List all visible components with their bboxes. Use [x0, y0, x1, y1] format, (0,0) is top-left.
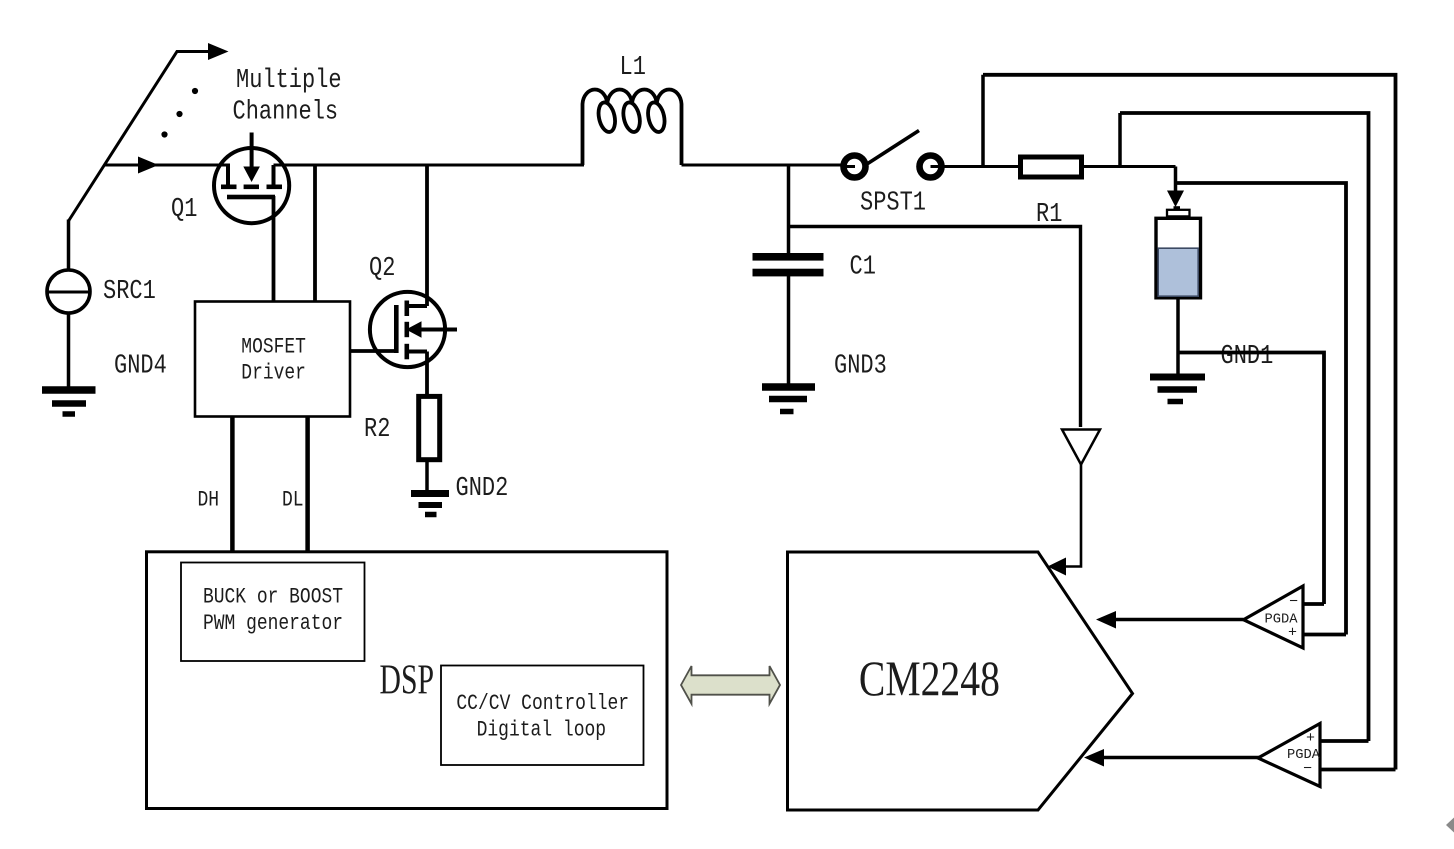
svg-text:DSP: DSP [380, 658, 435, 704]
wire sense tap before R1 [981, 75, 985, 167]
svg-text:GND4: GND4 [114, 352, 167, 382]
svg-text:CC/CV Controller: CC/CV Controller [456, 690, 629, 716]
svg-text:L1: L1 [620, 53, 646, 83]
wire rail L1 to SPST1 [682, 164, 845, 167]
label Q1 [171, 195, 197, 225]
svg-text:SRC1: SRC1 [103, 277, 156, 307]
svg-text:GND3: GND3 [834, 352, 887, 382]
svg-text:Driver: Driver [241, 359, 306, 385]
wire PGDA1 minus input stub [1303, 602, 1325, 606]
label C1 [850, 253, 876, 283]
source SRC1 [47, 270, 90, 313]
wire battery to ground [1176, 298, 1180, 378]
wire C1 top lead [787, 165, 791, 254]
node dots (ellipsis) [161, 88, 198, 138]
transistor Q2 [370, 292, 457, 367]
wire battery drop with arrow [1167, 167, 1184, 208]
svg-text:BUCK or BOOST: BUCK or BOOST [203, 584, 343, 610]
buffer amp A1 [1062, 430, 1100, 465]
inductor L1 [583, 89, 682, 165]
capacitor C1 [753, 253, 824, 276]
svg-text:−: − [1303, 761, 1312, 778]
ground GND4 [42, 390, 96, 414]
IC CM2248 [788, 552, 1133, 810]
DSP block U2 [147, 552, 668, 809]
wire battery plus feedback to PGDA1 plus [1176, 183, 1347, 635]
wire SRC1 bottom lead [67, 313, 71, 387]
wire main rail Q1 to L1 [274, 164, 585, 167]
label SPST1 [860, 189, 926, 219]
wire PGDA2 output arrow into CM2248 [1084, 749, 1260, 767]
wire PGDA2 minus input stub [1320, 768, 1396, 772]
op-amp PGDA1 [1244, 586, 1304, 648]
svg-text:+: + [1288, 625, 1297, 642]
label DH [198, 487, 220, 513]
label Q2 [369, 254, 395, 284]
wire PGDA1 plus input stub [1303, 633, 1347, 637]
wire C1 bottom lead [787, 276, 791, 384]
wire driver to Q2 gate [350, 349, 395, 353]
MOSFET driver U1 [195, 302, 350, 417]
svg-text:+: + [1306, 730, 1315, 747]
resistor R2 [419, 396, 440, 459]
svg-text:C1: C1 [850, 253, 876, 283]
svg-text:Channels: Channels [233, 98, 339, 128]
wire C1 voltage feedback [789, 227, 1081, 428]
wire arrowhead to other channels [208, 43, 229, 60]
wire sense tap after R1 [1118, 113, 1122, 167]
svg-text:GND2: GND2 [456, 474, 509, 504]
wire PGDA2 plus input stub [1320, 739, 1369, 743]
op-amp PGDA2 [1258, 724, 1321, 787]
svg-text:GND1: GND1 [1221, 342, 1274, 372]
wire SRC1 top lead [67, 220, 71, 271]
svg-text:−: − [1289, 594, 1298, 611]
wire second feedback to PGDA2 plus [1120, 113, 1369, 741]
svg-text:MOSFET: MOSFET [241, 334, 306, 360]
PWM generator sub-block [181, 563, 365, 662]
label R1 [1036, 200, 1062, 230]
label Multiple Channels [233, 66, 342, 128]
decoration corner glyph [1446, 818, 1454, 833]
wire input rail with arrow [105, 157, 231, 174]
ground GND2 [411, 494, 449, 515]
svg-text:DL: DL [282, 487, 304, 513]
label GND2 [456, 474, 509, 504]
wire multiple-channel diagonal bus [69, 52, 212, 222]
transistor Q1 [214, 133, 289, 302]
label L1 [620, 53, 646, 83]
wire PGDA1 output arrow into CM2248 [1096, 611, 1244, 629]
wire top feedback to PGDA2 minus [983, 75, 1396, 770]
label SRC1 [103, 277, 156, 307]
ground GND3 [762, 387, 815, 412]
CC/CV controller sub-block [441, 666, 644, 766]
bus double arrow DSP-CM2248 [681, 666, 780, 704]
label DSP [380, 658, 435, 704]
label GND1 [1221, 342, 1274, 372]
wire GND1 feedback to PGDA1 minus [1178, 353, 1324, 605]
resistor R1 [1021, 157, 1082, 177]
wire DL [305, 417, 310, 552]
switch SPST1 [843, 131, 944, 178]
wire rail junction down to Q2 drain [425, 165, 429, 306]
battery BAT1 [1156, 206, 1201, 298]
svg-text:Q1: Q1 [171, 195, 197, 225]
svg-text:Q2: Q2 [369, 254, 395, 284]
svg-text:CM2248: CM2248 [859, 650, 1000, 706]
svg-text:SPST1: SPST1 [860, 189, 926, 219]
svg-text:DH: DH [198, 487, 220, 513]
svg-text:Digital loop: Digital loop [477, 717, 606, 743]
label DL [282, 487, 304, 513]
wire buffer to CM2248 with arrow [1048, 465, 1082, 576]
ground GND1 [1150, 377, 1205, 402]
wire DH [230, 417, 235, 552]
wire rail junction down to driver [313, 165, 317, 302]
svg-text:PWM generator: PWM generator [203, 610, 343, 636]
label GND4 [114, 352, 167, 382]
wire R2 to ground [425, 460, 429, 491]
svg-text:Multiple: Multiple [236, 66, 342, 96]
wire Q2 source to R2 [425, 352, 429, 397]
label R2 [364, 415, 390, 445]
wire R1 to battery [1084, 165, 1176, 168]
label GND3 [834, 352, 887, 382]
svg-text:R2: R2 [364, 415, 390, 445]
wire SPST1 to R1 [943, 165, 1021, 168]
